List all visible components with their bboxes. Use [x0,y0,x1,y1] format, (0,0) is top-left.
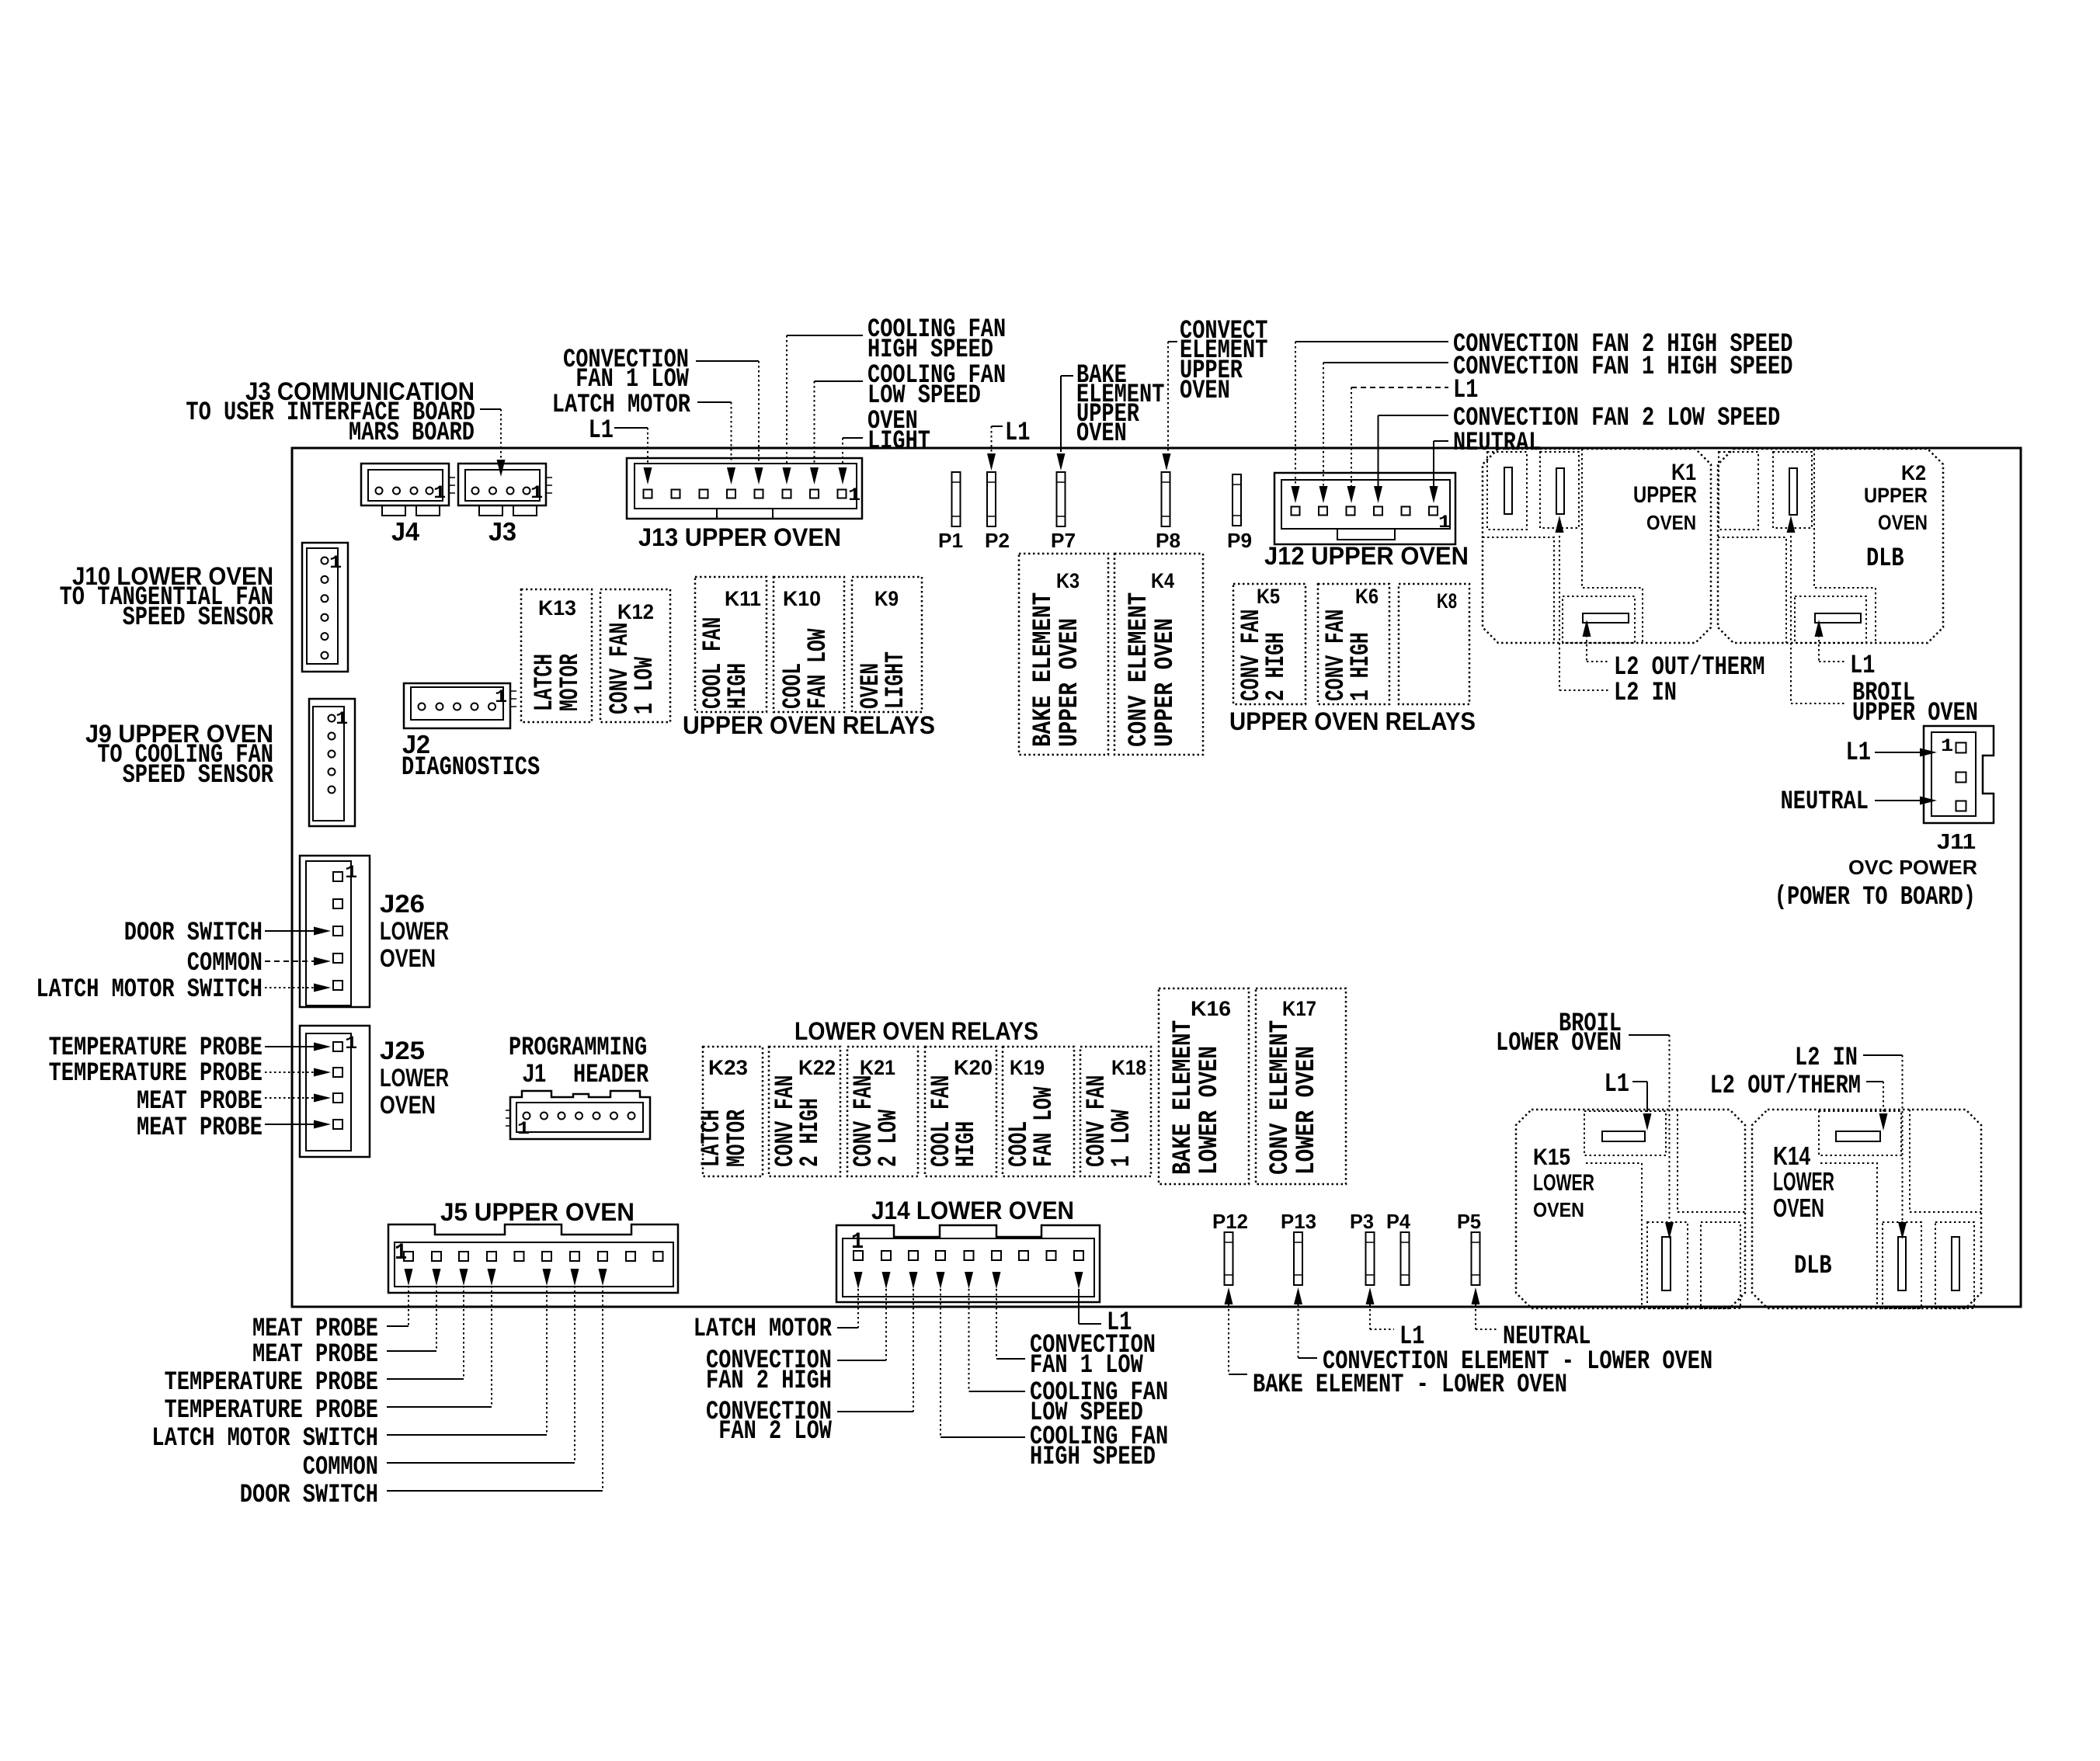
svg-text:2 LOW: 2 LOW [874,1110,904,1167]
label COOLING FAN HIGH SPEED (J14) [1030,1422,1168,1472]
label BROIL UPPER OVEN [1852,679,1978,728]
svg-text:OVEN: OVEN [1646,511,1696,534]
label COOLING FAN LOW SPEED (J14) [1030,1378,1168,1428]
svg-text:LOWER OVEN: LOWER OVEN [1496,1029,1622,1058]
svg-text:1: 1 [345,863,357,883]
svg-text:OVEN: OVEN [1533,1198,1584,1221]
label LATCH MOTOR (J13) [552,391,691,420]
svg-text:LOWER: LOWER [380,1064,449,1092]
label BAKE ELEMENT - LOWER OVEN [1253,1370,1567,1400]
label UPPER OVEN RELAYS (left) [683,711,935,739]
relay K23 [697,1047,763,1176]
svg-text:2 HIGH: 2 HIGH [1262,632,1292,701]
label P7 [1051,529,1076,552]
relay K2 upper oven [1718,449,1943,643]
label BAKE ELEMENT UPPER OVEN [1076,361,1164,449]
svg-text:LIGHT: LIGHT [881,651,911,709]
label CONVECTION FAN 2 LOW SPEED [1453,404,1780,433]
svg-text:LOWER OVEN: LOWER OVEN [1292,1046,1322,1175]
label L1 (J14) [1107,1308,1132,1338]
svg-text:K22: K22 [798,1056,836,1079]
wire door switch to J26 [265,927,331,936]
svg-text:DLB: DLB [1866,544,1904,574]
svg-text:1: 1 [851,1229,864,1256]
svg-text:K3: K3 [1056,569,1080,592]
pad P13 [1294,1232,1302,1285]
svg-text:L1: L1 [1850,651,1875,681]
svg-text:1: 1 [1438,512,1451,533]
wire L1 to J12 pin [1347,387,1449,503]
connector J2 diagnostics [404,683,516,728]
svg-text:LATCH MOTOR: LATCH MOTOR [694,1315,833,1344]
wire neutral to J12 pin [1430,441,1449,503]
svg-text:MOTOR: MOTOR [556,654,586,711]
svg-text:1: 1 [433,483,446,503]
connector J26 lower oven [300,856,370,1007]
svg-text:P3: P3 [1350,1210,1374,1233]
svg-text:BAKE ELEMENT: BAKE ELEMENT [1169,1020,1198,1175]
label P4 [1386,1210,1411,1233]
label L1 (J13 pin1) [589,416,614,446]
label PROGRAMMING J1 HEADER [509,1033,649,1090]
svg-text:MEAT PROBE: MEAT PROBE [137,1113,262,1143]
label MEAT PROBE 2 (J5) [252,1340,378,1370]
svg-text:OVEN: OVEN [380,944,436,972]
label UPPER OVEN RELAYS (right) [1229,707,1476,735]
wire cooling fan high to J13 pin6 [783,335,864,485]
svg-text:OVEN: OVEN [1773,1193,1824,1222]
connector J1 programming header [506,1091,650,1139]
label P5 [1457,1210,1481,1233]
svg-text:LATCH MOTOR SWITCH: LATCH MOTOR SWITCH [36,975,262,1005]
wire oven light to J13 pin8 [839,438,864,485]
svg-text:1: 1 [530,483,543,503]
label CONVECTION FAN 2 HIGH (J14) [706,1346,832,1396]
svg-text:P4: P4 [1386,1210,1411,1233]
svg-text:L2 IN: L2 IN [1795,1044,1858,1073]
svg-text:FAN LOW: FAN LOW [804,628,833,709]
svg-text:BAKE ELEMENT: BAKE ELEMENT [1029,592,1059,747]
wire temperature probe 1 to J25 [265,1043,331,1051]
svg-text:NEUTRAL: NEUTRAL [1453,429,1541,458]
svg-text:K15: K15 [1533,1144,1570,1170]
relay K6 [1318,584,1389,704]
label L1 (J12) [1453,376,1478,405]
wire L1 to K15 pad [1632,1082,1652,1131]
svg-text:L1: L1 [1605,1070,1629,1099]
label L1 (K15) [1605,1070,1629,1099]
wire L2 in to K1 pad [1556,516,1610,690]
svg-text:OVC POWER: OVC POWER [1848,856,1977,879]
pad P5 [1472,1232,1480,1285]
svg-text:NEUTRAL: NEUTRAL [1781,787,1869,817]
svg-text:UPPER OVEN: UPPER OVEN [1852,699,1978,728]
svg-text:P13: P13 [1281,1210,1316,1233]
wire J14 pin leaders [837,1289,1101,1437]
label LOWER OVEN RELAYS [794,1017,1038,1045]
label OVEN LIGHT [867,407,930,457]
svg-text:LOWER: LOWER [1533,1170,1594,1196]
label CONVECTION FAN 1 LOW [563,346,689,394]
wire convection fan 1 low to J13 pin5 [696,361,763,485]
label P2 [985,529,1010,552]
svg-text:L1: L1 [1399,1322,1424,1352]
relay K8 [1399,584,1469,704]
svg-text:1 LOW: 1 LOW [1107,1110,1137,1167]
wire temperature probe 2 to J25 [265,1068,331,1077]
svg-text:K20: K20 [954,1056,993,1079]
svg-text:P8: P8 [1156,529,1180,552]
svg-text:1: 1 [848,485,861,505]
label P8 [1156,529,1180,552]
svg-text:UPPER OVEN RELAYS: UPPER OVEN RELAYS [1229,707,1476,735]
pad P4 [1401,1232,1410,1285]
label J4 [391,517,420,546]
svg-text:SPEED SENSOR: SPEED SENSOR [123,603,274,633]
wire conv fan 2 high to J12 pin [1292,342,1449,503]
relay K11 [695,577,767,712]
label P1 [938,529,963,552]
svg-text:L2 OUT/THERM: L2 OUT/THERM [1710,1072,1861,1101]
label SPEED SENSOR (J10) [123,603,274,633]
pad P2 [987,472,996,526]
svg-text:DOOR SWITCH: DOOR SWITCH [124,919,262,948]
label NEUTRAL (J11) [1781,787,1869,817]
connector J12 upper oven [1274,473,1455,544]
label CONVECT ELEMENT UPPER OVEN [1180,317,1267,406]
label COOLING FAN LOW SPEED [867,361,1006,411]
svg-text:LOWER OVEN RELAYS: LOWER OVEN RELAYS [794,1017,1038,1045]
label CONVECTION FAN 2 LOW (J14) [706,1398,832,1447]
svg-text:P2: P2 [985,529,1010,552]
svg-text:CONV ELEMENT: CONV ELEMENT [1125,592,1154,747]
svg-text:MEAT PROBE: MEAT PROBE [137,1087,262,1117]
relay K18 [1080,1047,1151,1176]
label TEMPERATURE PROBE 2 (J5) [165,1396,378,1426]
svg-text:K11: K11 [725,587,761,610]
svg-text:P1: P1 [938,529,963,552]
wire P3 leader [1366,1287,1395,1329]
svg-text:COMMON: COMMON [187,949,262,978]
relay K10 [774,577,844,712]
label NEUTRAL (P5) [1503,1322,1591,1352]
svg-text:J26: J26 [380,890,425,918]
label TO USER INTERFACE BOARD [186,398,475,428]
svg-text:LATCH MOTOR: LATCH MOTOR [552,391,691,420]
svg-text:L1: L1 [1846,738,1871,768]
relay K4 [1114,554,1203,755]
svg-text:K23: K23 [708,1056,748,1079]
wire meat probe 1 to J25 [265,1094,331,1103]
svg-text:TEMPERATURE PROBE: TEMPERATURE PROBE [49,1059,262,1089]
connector J4 [361,464,455,516]
pad P7 [1057,472,1066,526]
svg-text:J4: J4 [391,517,420,546]
svg-text:OVEN: OVEN [1180,377,1230,406]
svg-text:P7: P7 [1051,529,1076,552]
wire L2 out/therm to K1 pad [1583,620,1610,662]
connector J13 upper oven [627,458,862,519]
svg-text:HIGH: HIGH [952,1121,982,1167]
relay K1 upper oven [1483,449,1711,643]
label DOOR SWITCH (J26) [124,919,262,948]
label J13 UPPER OVEN [638,523,841,551]
svg-text:K5: K5 [1257,585,1280,608]
label OVC POWER [1848,856,1977,879]
wire cooling fan low to J13 pin7 [810,381,863,485]
svg-text:J3: J3 [488,517,516,546]
label L1 (P2) [1005,419,1030,448]
svg-text:1: 1 [345,1033,357,1054]
label CONVECTION FAN 2 HIGH SPEED [1453,330,1792,359]
svg-text:K10: K10 [783,587,821,610]
label TEMPERATURE PROBE 1 (J25) [49,1033,262,1063]
relay K21 [847,1047,918,1176]
label CONVECTION FAN 1 HIGH SPEED [1453,353,1792,382]
label LATCH MOTOR SWITCH (J5) [151,1424,378,1454]
wire bake element to P7 [1057,376,1074,471]
svg-text:OVEN: OVEN [1076,419,1127,449]
wire broil upper oven to K2 pad [1787,516,1848,703]
label BROIL LOWER OVEN [1496,1009,1622,1058]
svg-text:HIGH: HIGH [724,663,753,709]
svg-text:(POWER TO BOARD): (POWER TO BOARD) [1775,883,1976,912]
connector J25 lower oven [300,1026,370,1157]
svg-text:LOWER OVEN: LOWER OVEN [1195,1046,1225,1175]
svg-text:K2: K2 [1901,461,1926,485]
svg-text:SPEED SENSOR: SPEED SENSOR [123,761,274,790]
svg-text:K6: K6 [1355,585,1379,608]
label MEAT PROBE 1 (J25) [137,1087,262,1117]
svg-text:UPPER: UPPER [1864,484,1928,507]
label DOOR SWITCH (J5) [240,1481,378,1510]
svg-text:L1: L1 [589,416,614,446]
wire latch motor to J13 pin4 [697,402,735,485]
svg-text:J13 UPPER OVEN: J13 UPPER OVEN [638,523,841,551]
label P12 [1212,1210,1248,1233]
label J3 [488,517,516,546]
label TEMPERATURE PROBE 1 (J5) [165,1368,378,1398]
label P9 [1227,529,1252,552]
svg-text:1: 1 [336,709,348,729]
label J12 UPPER OVEN [1264,542,1469,570]
svg-text:K8: K8 [1437,589,1457,613]
connector J9 [309,699,355,826]
svg-text:TEMPERATURE PROBE: TEMPERATURE PROBE [165,1396,378,1426]
label COMMON (J26) [187,949,262,978]
svg-text:COMMON: COMMON [303,1453,378,1482]
label L2 IN (K14) [1795,1044,1858,1073]
label TO TANGENTIAL FAN [60,583,273,613]
label LATCH MOTOR SWITCH (J26) [36,975,262,1005]
connector J11 OVC power [1924,726,1994,823]
label L1 (J11) [1846,738,1871,768]
label J25 LOWER OVEN [380,1037,449,1119]
svg-text:FAN LOW: FAN LOW [1030,1086,1059,1167]
svg-text:LOWER: LOWER [380,917,449,945]
svg-text:1: 1 [1941,736,1953,756]
svg-text:TEMPERATURE PROBE: TEMPERATURE PROBE [165,1368,378,1398]
svg-text:K4: K4 [1151,569,1174,592]
label L2 OUT/THERM (K14) [1710,1072,1861,1101]
label J11 [1937,829,1976,853]
label SPEED SENSOR (J9) [123,761,274,790]
svg-text:LATCH MOTOR SWITCH: LATCH MOTOR SWITCH [151,1424,378,1454]
label TO COOLING FAN [97,741,273,770]
connector J10 [302,543,348,672]
svg-text:P5: P5 [1457,1210,1481,1233]
wire L1 to K2 pad [1815,620,1846,662]
svg-text:K13: K13 [538,596,576,620]
svg-text:P9: P9 [1227,529,1252,552]
svg-text:1 LOW: 1 LOW [631,657,660,714]
svg-text:LIGHT: LIGHT [867,427,930,457]
svg-text:FAN 2 HIGH: FAN 2 HIGH [706,1367,832,1396]
relay K5 [1233,584,1306,704]
label J5 UPPER OVEN [440,1198,635,1226]
relay K15 lower oven [1516,1110,1745,1308]
svg-text:L2 IN: L2 IN [1614,679,1677,708]
label L1 (K2) [1850,651,1875,681]
svg-text:HEADER: HEADER [573,1061,649,1090]
wire L1 to J11 pin1 [1875,749,1937,757]
wire neutral to J11 pin3 [1875,797,1937,805]
svg-text:HIGH SPEED: HIGH SPEED [1030,1443,1156,1472]
svg-text:MOTOR: MOTOR [723,1110,753,1167]
wire J3 communication leader [480,409,506,477]
label L2 OUT/THERM (K1) [1614,653,1764,683]
wire common to J26 [265,957,331,966]
board outline [292,448,2021,1307]
relay K13 [521,589,592,722]
relay K14 lower oven [1752,1110,1981,1308]
wire P5 leader [1472,1287,1498,1329]
pad P12 [1225,1232,1233,1285]
svg-text:K17: K17 [1282,997,1316,1020]
svg-text:1: 1 [517,1119,530,1139]
svg-text:K12: K12 [617,600,654,623]
relay K17 [1256,988,1346,1184]
connector J5 upper oven [388,1224,678,1293]
label P13 [1281,1210,1316,1233]
svg-text:DLB: DLB [1794,1252,1832,1281]
svg-text:K19: K19 [1010,1056,1045,1079]
svg-text:1: 1 [329,553,342,573]
svg-text:MARS BOARD: MARS BOARD [349,419,475,448]
svg-text:K16: K16 [1191,997,1231,1020]
svg-text:J14 LOWER OVEN: J14 LOWER OVEN [871,1197,1074,1224]
wire latch motor switch to J26 [265,984,331,992]
label J14 LOWER OVEN [871,1197,1074,1224]
svg-text:CONVECTION FAN 1 HIGH SPEED: CONVECTION FAN 1 HIGH SPEED [1453,353,1792,382]
svg-text:1: 1 [395,1240,407,1266]
label COOLING FAN HIGH SPEED [867,315,1006,365]
wire convect element to P8 [1163,342,1178,471]
label TEMPERATURE PROBE 2 (J25) [49,1059,262,1089]
svg-text:DOOR SWITCH: DOOR SWITCH [240,1481,378,1510]
svg-text:J25: J25 [380,1037,425,1065]
wire J5 pin leaders [387,1286,603,1491]
svg-text:J1: J1 [523,1059,546,1087]
label L1 (P3) [1399,1322,1424,1352]
wire conv fan 1 high to J12 pin [1319,363,1449,503]
label P3 [1350,1210,1374,1233]
label CONVECTION FAN 1 LOW (J14) [1030,1331,1156,1381]
svg-text:2 HIGH: 2 HIGH [796,1098,826,1167]
label NEUTRAL (J12) [1453,429,1541,458]
label J2 [402,730,430,759]
svg-text:UPPER: UPPER [1633,482,1697,508]
svg-text:J12 UPPER OVEN: J12 UPPER OVEN [1264,542,1469,570]
svg-text:K9: K9 [874,587,899,610]
label DIAGNOSTICS [402,753,540,783]
label MEAT PROBE 1 (J5) [252,1315,378,1344]
relay K20 [925,1047,996,1176]
svg-text:CONV ELEMENT: CONV ELEMENT [1266,1020,1295,1175]
relay K9 [852,577,922,712]
svg-text:FAN 1 LOW: FAN 1 LOW [1030,1351,1143,1381]
svg-text:J5 UPPER OVEN: J5 UPPER OVEN [440,1198,635,1226]
svg-text:1 HIGH: 1 HIGH [1347,632,1376,701]
svg-text:UPPER OVEN: UPPER OVEN [1055,618,1085,747]
wire broil lower oven to K15 [1629,1035,1674,1239]
svg-text:L1: L1 [1453,376,1478,405]
label LATCH MOTOR (J14) [694,1315,833,1344]
connector J14 lower oven [836,1225,1100,1302]
wire meat probe 2 to J25 [265,1120,331,1129]
wire conv fan 2 low to J12 pin [1374,415,1448,503]
label J3 COMMUNICATION [245,377,475,405]
svg-text:K14: K14 [1773,1141,1811,1170]
label L2 IN (K1) [1614,679,1677,708]
svg-text:UPPER OVEN: UPPER OVEN [1151,618,1180,747]
label J10 LOWER OVEN [72,562,273,590]
relay K22 [769,1047,840,1176]
pad P3 [1366,1232,1375,1285]
svg-text:LOWER: LOWER [1773,1167,1834,1196]
svg-text:DIAGNOSTICS: DIAGNOSTICS [402,753,540,783]
wire L2 out/therm to K14 pad [1866,1082,1888,1131]
svg-text:J11: J11 [1937,829,1976,853]
label CONVECTION ELEMENT - LOWER OVEN [1323,1347,1712,1377]
label MEAT PROBE 2 (J25) [137,1113,262,1143]
relay K12 [600,589,670,722]
svg-text:UPPER OVEN RELAYS: UPPER OVEN RELAYS [683,711,935,739]
wire L1 to P2 [987,426,1003,471]
relay K19 [1003,1047,1074,1176]
svg-text:1: 1 [495,687,507,707]
label J9 UPPER OVEN [85,720,273,748]
svg-text:MEAT PROBE: MEAT PROBE [252,1340,378,1370]
connector J3 [458,464,552,516]
relay K3 [1019,554,1108,755]
label MARS BOARD [349,419,475,448]
label POWER TO BOARD [1775,883,1976,912]
svg-text:K18: K18 [1111,1056,1146,1079]
svg-text:L1: L1 [1005,419,1030,448]
label J26 LOWER OVEN [380,890,449,972]
wire L2 in to K14 [1863,1055,1907,1239]
svg-text:FAN 2 LOW: FAN 2 LOW [718,1417,832,1447]
wire P12 leader [1225,1287,1248,1374]
wire L1 to J13 pin1 [614,428,652,485]
pad P8 [1162,472,1170,526]
wire P13 leader [1294,1287,1317,1358]
svg-text:OVEN: OVEN [380,1091,436,1119]
relay K16 [1159,988,1249,1184]
svg-text:NEUTRAL: NEUTRAL [1503,1322,1591,1352]
pad P1 [952,472,961,526]
